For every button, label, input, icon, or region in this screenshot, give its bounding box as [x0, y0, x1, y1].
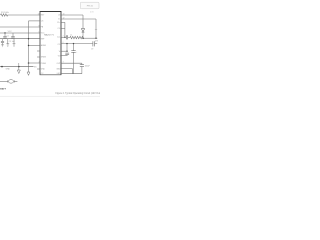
- vertical x83 to diode: [82, 15, 84, 28]
- note badge top right: [80, 2, 99, 9]
- wire pin C2+ right: [61, 36, 66, 38]
- svg-text:+: +: [76, 52, 77, 54]
- diode D1: [81, 29, 84, 32]
- pin stub left y57: [37, 56, 40, 58]
- fuse F1 lead tick right: [13, 80, 15, 82]
- svg-text:C5 1uF: C5 1uF: [9, 41, 16, 43]
- IC right pin labels: [56, 15, 61, 75]
- wire from fuse: [14, 80, 18, 82]
- wire pin V- right: [61, 50, 67, 52]
- wire pin OUT right: [61, 62, 82, 64]
- background: [0, 0, 100, 100]
- capacitor C7 series plates: [65, 35, 67, 39]
- ground G1: [1, 44, 3, 46]
- pin stub left y69: [37, 68, 40, 70]
- svg-text:MAX1771: MAX1771: [44, 33, 54, 36]
- vertical x73.5 upper: [73, 44, 75, 51]
- capacitor C11: [81, 63, 83, 64]
- wire pin EXT right: [61, 14, 83, 16]
- svg-text:GND: GND: [56, 68, 61, 70]
- wire rail GND y38.7: [0, 38, 40, 40]
- wire to fuse: [0, 80, 8, 82]
- pin numbers right side: [63, 13, 65, 63]
- svg-text:0.1: 0.1: [7, 35, 10, 37]
- wire pin VO right: [61, 55, 67, 57]
- wire pin C1+ right: [61, 21, 65, 23]
- junction dot (96,38.2): [95, 38, 96, 39]
- svg-text:BATT: BATT: [0, 87, 6, 90]
- svg-text:C2+: C2+: [57, 37, 60, 39]
- svg-text:C2-: C2-: [57, 44, 60, 46]
- resistor R1: [1, 14, 9, 16]
- svg-text:LBO: LBO: [57, 73, 61, 75]
- svg-text:GND: GND: [41, 69, 46, 71]
- svg-text:C9: C9: [91, 48, 93, 50]
- inductor L1: [70, 36, 84, 38]
- wire pin FB left long: [0, 26, 40, 28]
- capacitor C2 between rails: [4, 33, 6, 36]
- fuse F1 lead tick: [7, 80, 9, 82]
- junction dot (2,66.6): [1, 66, 3, 68]
- IC U1 left edge emphasis: [39, 12, 41, 75]
- wire pin AGND left: [29, 45, 41, 47]
- junction dot (67,51.2): [66, 51, 67, 52]
- IC left pin labels: [41, 15, 47, 71]
- junction dot (18.8,66.6): [18, 66, 20, 68]
- pin numbers left side: [38, 13, 40, 63]
- wire pin LX right long: [61, 18, 96, 20]
- wire rail VCC y33: [0, 32, 40, 34]
- junction dot (28.5,63): [28, 62, 30, 64]
- capacitor C3 between rails: [12, 33, 14, 36]
- ground G2: [7, 39, 9, 44]
- wire pin EXT left: [8, 14, 41, 16]
- wire pin C2- right long: [61, 43, 93, 45]
- svg-text:GND: GND: [6, 69, 11, 71]
- ground G3: [13, 39, 15, 44]
- vertical x96: [95, 19, 97, 38]
- net tick above: [18, 63, 20, 67]
- fuse F1 body: [8, 80, 13, 84]
- junction dot (73.5,43.6): [73, 43, 74, 44]
- IC U1 body: [40, 12, 61, 75]
- capacitor C6 plates: [71, 50, 75, 52]
- capacitor C8 series plates: [92, 41, 94, 46]
- junction dot (28.5,38.7): [28, 38, 29, 39]
- svg-text:14: 14: [38, 13, 40, 15]
- wire pin PGND left: [29, 62, 41, 64]
- wire bottom rail right: [61, 73, 82, 75]
- junction dot (67,43.6): [66, 43, 67, 44]
- wire pin GND right corner: [61, 69, 72, 74]
- junction dot (83,38.2): [82, 38, 83, 39]
- IC U1 top edge emphasis: [40, 11, 62, 13]
- capacitor C4 below gnd rail: [2, 39, 4, 41]
- svg-text:R1 100k: R1 100k: [1, 12, 10, 14]
- vertical 67 down: [66, 44, 68, 52]
- svg-text:100uF: 100uF: [85, 66, 91, 68]
- rail GND2 y66.6: [0, 66, 34, 68]
- IC U1 right edge emphasis: [60, 12, 62, 75]
- wire after C7 to inductor: [68, 36, 70, 38]
- wire output y38.2: [83, 37, 97, 39]
- small tick on vertical: [95, 29, 97, 31]
- svg-text:Figure 2. Typical Operating Ci: Figure 2. Typical Operating Circuit (12V…: [56, 92, 101, 95]
- svg-text:VCC: VCC: [8, 31, 13, 33]
- svg-text:AGND: AGND: [41, 44, 47, 47]
- wire pin CS left: [29, 20, 41, 22]
- svg-text:C1+: C1+: [57, 22, 60, 24]
- pin stub C1-: [61, 27, 65, 29]
- svg-text:V+: V+: [58, 18, 60, 20]
- vertical x64.9: [64, 22, 66, 37]
- junction dot (5,33): [4, 32, 5, 33]
- vertical bus x28.5: [28, 21, 30, 72]
- svg-text:C1-: C1-: [57, 28, 60, 30]
- rule line bottom: [0, 95, 100, 97]
- pin stub left y51: [37, 50, 40, 52]
- svg-text:PGND: PGND: [41, 63, 47, 65]
- svg-text:PR 41: PR 41: [87, 6, 94, 8]
- vertical x73.5 lower: [73, 53, 75, 74]
- wire after C8: [95, 43, 98, 45]
- ground arrow at bus bottom: [27, 72, 30, 75]
- ground arrow G4: [18, 67, 20, 70]
- junction dot (64.9,37.3): [64, 37, 65, 38]
- svg-text:SHDN: SHDN: [41, 57, 47, 59]
- junction dot (28.5,45.5): [28, 45, 29, 46]
- capacitor C10 above: [66, 54, 68, 57]
